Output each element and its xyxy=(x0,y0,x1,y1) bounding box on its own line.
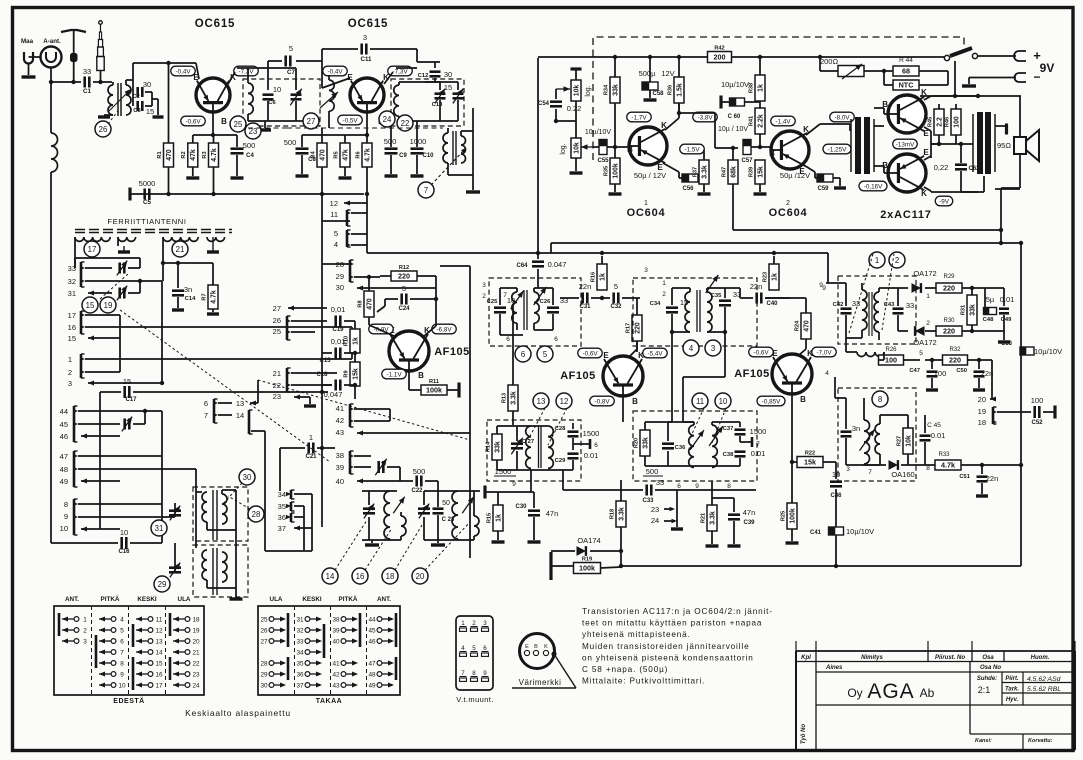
svg-text:50µ /12V: 50µ /12V xyxy=(780,171,810,180)
resistor R4 470 xyxy=(321,128,323,143)
svg-text:34: 34 xyxy=(296,649,304,656)
svg-text:2: 2 xyxy=(786,200,790,207)
svg-text:-6,8V: -6,8V xyxy=(436,326,452,333)
svg-text:7: 7 xyxy=(868,469,872,476)
svg-text:28: 28 xyxy=(260,660,268,667)
bottom row xyxy=(970,733,1075,735)
resistor R9 15k xyxy=(350,362,360,386)
wire vertical 162 xyxy=(161,281,163,383)
coil AM det 2 xyxy=(875,424,880,454)
capacitor C41 10u/10V xyxy=(829,527,844,535)
ferrite coil 3 xyxy=(163,237,198,241)
capacitor C19 0.01 xyxy=(334,316,337,327)
resistor R11 100k xyxy=(409,389,421,391)
wire xyxy=(321,49,323,88)
resistor R6 4.7k xyxy=(366,135,368,143)
coil IF3b xyxy=(548,426,553,468)
core T5 xyxy=(538,426,540,468)
svg-text:0.01: 0.01 xyxy=(1000,295,1015,304)
svg-text:45: 45 xyxy=(60,420,68,429)
svg-text:10k: 10k xyxy=(905,435,912,447)
svg-text:2.2k: 2.2k xyxy=(757,114,764,128)
wire xyxy=(51,81,81,83)
svg-text:4: 4 xyxy=(334,240,338,249)
svg-text:B: B xyxy=(221,117,227,126)
svg-text:22: 22 xyxy=(192,660,200,667)
svg-text:20: 20 xyxy=(192,638,200,645)
svg-text:5.5.62 RBL: 5.5.62 RBL xyxy=(1027,686,1061,693)
circled 1 xyxy=(869,252,885,268)
svg-text:Kansi:: Kansi: xyxy=(975,738,992,744)
trimmer cap pin33 xyxy=(118,263,121,274)
svg-text:R7: R7 xyxy=(201,293,207,300)
svg-text:R45: R45 xyxy=(927,117,933,127)
resistor R45 2.2 xyxy=(934,109,944,135)
svg-text:Kpl: Kpl xyxy=(801,655,811,661)
svg-text:6: 6 xyxy=(506,336,510,343)
svg-text:25: 25 xyxy=(260,616,268,623)
voltage -13mV xyxy=(893,139,918,149)
svg-text:6: 6 xyxy=(594,442,598,449)
speaker return top xyxy=(1019,96,1021,137)
svg-text:27: 27 xyxy=(273,304,281,313)
capacitor C34 15 xyxy=(666,306,678,309)
svg-text:22n: 22n xyxy=(579,282,592,291)
voltage -0.8V xyxy=(590,396,615,406)
svg-text:ANT.: ANT. xyxy=(65,596,79,603)
svg-text:10k: 10k xyxy=(573,142,580,154)
capacitor C8 500 xyxy=(301,135,303,147)
svg-text:10: 10 xyxy=(719,397,728,406)
wire K xyxy=(424,326,436,336)
svg-text:C59: C59 xyxy=(817,186,829,192)
voltage -5.4V xyxy=(643,348,668,358)
wire C34 down to T6 xyxy=(671,332,673,422)
svg-text:K: K xyxy=(544,644,548,650)
svg-text:4.7k: 4.7k xyxy=(210,290,217,304)
svg-text:19: 19 xyxy=(978,407,986,416)
svg-text:500: 500 xyxy=(243,141,256,150)
wire C35 down via y377 xyxy=(724,332,726,377)
coil IF1a xyxy=(512,292,517,323)
svg-text:C55: C55 xyxy=(597,158,609,164)
svg-text:Hyv.: Hyv. xyxy=(1006,697,1019,703)
svg-text:5µ: 5µ xyxy=(986,295,995,304)
svg-text:3.3k: 3.3k xyxy=(618,507,625,521)
svg-text:4: 4 xyxy=(461,645,465,652)
battery plus terminal xyxy=(978,55,1016,57)
voltage -7.3V xyxy=(234,66,259,76)
svg-text:OA160: OA160 xyxy=(891,470,914,479)
svg-text:19: 19 xyxy=(192,627,200,634)
wire pins3437 verticals xyxy=(303,506,305,550)
svg-text:C29: C29 xyxy=(555,458,566,464)
svg-text:2: 2 xyxy=(895,256,899,265)
resistor R31 33k xyxy=(967,295,977,325)
svg-text:33k: 33k xyxy=(969,304,976,316)
svg-text:500: 500 xyxy=(413,467,426,476)
tuned circuit 1 ground xyxy=(264,121,266,128)
resistor R25 100k xyxy=(787,503,797,529)
coil IF4b xyxy=(712,425,717,467)
voltage -8.0V xyxy=(830,112,855,122)
svg-text:26: 26 xyxy=(99,125,108,134)
svg-text:18: 18 xyxy=(978,418,986,427)
capacitor C50 22n xyxy=(974,370,985,373)
capacitor C7 5 xyxy=(296,60,322,62)
svg-text:3.3k: 3.3k xyxy=(709,511,716,525)
capacitor C21 1 xyxy=(307,443,310,454)
svg-text:33: 33 xyxy=(656,478,664,487)
svg-text:C34: C34 xyxy=(650,301,661,307)
capacitor C55 10u/10V xyxy=(599,140,607,155)
wire collector V7 xyxy=(806,124,820,135)
gang dashed line xyxy=(287,127,443,129)
resistor R8 470 xyxy=(364,291,374,317)
svg-text:46: 46 xyxy=(368,638,376,645)
svg-text:R34: R34 xyxy=(603,84,609,95)
svg-text:C14: C14 xyxy=(185,296,196,302)
svg-text:OA172: OA172 xyxy=(913,269,936,278)
ground xyxy=(98,115,110,118)
svg-text:C48: C48 xyxy=(983,317,994,323)
svg-text:OC604: OC604 xyxy=(627,207,666,219)
resistor R23 1k xyxy=(769,264,779,290)
resistor R10 1k xyxy=(350,329,360,353)
capacitor C39 47n xyxy=(728,513,740,516)
svg-text:C30: C30 xyxy=(515,504,527,510)
svg-text:3: 3 xyxy=(846,466,850,473)
svg-text:3: 3 xyxy=(711,344,715,353)
svg-text:37: 37 xyxy=(296,682,304,689)
svg-text:220: 220 xyxy=(634,322,641,334)
coil IF2b xyxy=(707,292,712,332)
voltage -0.6V xyxy=(181,116,206,126)
svg-text:7: 7 xyxy=(503,292,507,299)
svg-text:38: 38 xyxy=(332,616,340,623)
svg-text:3: 3 xyxy=(483,620,487,627)
voltage -0.9V xyxy=(369,324,394,334)
svg-text:FERRIITTIANTENNI: FERRIITTIANTENNI xyxy=(107,217,186,226)
svg-text:Muiden transistoreiden jänn: Muiden transistoreiden jännitearvoille xyxy=(582,642,749,651)
resistor R17 220 xyxy=(632,315,642,341)
svg-text:27: 27 xyxy=(260,638,268,645)
voltage -0.4V xyxy=(171,66,196,76)
resistor R15 1k xyxy=(493,505,503,531)
resistor R38 1k xyxy=(755,75,765,101)
trimmer 31 xyxy=(174,503,176,517)
circled 12 xyxy=(556,393,572,409)
svg-text:-1,4V: -1,4V xyxy=(775,118,791,125)
svg-text:NTC: NTC xyxy=(899,81,914,90)
svg-text:20: 20 xyxy=(978,395,986,404)
transistor V2 OC615 xyxy=(350,78,384,112)
svg-text:7: 7 xyxy=(120,649,124,656)
svg-text:22n: 22n xyxy=(986,474,999,483)
capacitor C23 50 xyxy=(433,507,444,510)
svg-text:5: 5 xyxy=(289,44,293,53)
svg-text:E: E xyxy=(923,148,929,157)
circled 29 xyxy=(154,576,170,592)
svg-text:14: 14 xyxy=(326,572,335,581)
svg-text:46: 46 xyxy=(60,432,68,441)
capacitor C64 0.047 xyxy=(532,260,544,263)
svg-text:34: 34 xyxy=(278,490,286,499)
svg-text:Suhde:: Suhde: xyxy=(977,676,997,682)
svg-text:220: 220 xyxy=(398,272,410,281)
wire xyxy=(351,327,353,359)
svg-text:26: 26 xyxy=(273,316,281,325)
svg-text:-0,6V: -0,6V xyxy=(582,350,598,357)
svg-text:R 44: R 44 xyxy=(899,57,913,64)
svg-text:C35: C35 xyxy=(711,293,722,299)
svg-text:B: B xyxy=(418,371,424,380)
svg-text:on yhteisenä pisteenä kond: on yhteisenä pisteenä kondensaattorin xyxy=(582,653,754,662)
circled 27 xyxy=(303,113,319,129)
capacitor C1 33 xyxy=(83,77,86,88)
wire emitters join xyxy=(924,127,931,131)
svg-text:50: 50 xyxy=(442,500,450,507)
svg-text:2: 2 xyxy=(68,368,72,377)
capacitor C54 0.22 xyxy=(555,89,557,99)
IF transformer 1 dashed xyxy=(489,278,581,346)
varimerkki pointer xyxy=(551,651,556,656)
transistor V3 AF105 xyxy=(389,331,429,371)
svg-text:AF105: AF105 xyxy=(434,346,470,358)
circled 25 xyxy=(230,116,246,132)
NTC xyxy=(893,80,919,90)
voltage -7.0V xyxy=(812,347,837,357)
svg-text:R38: R38 xyxy=(748,83,754,93)
svg-text:-1,1V: -1,1V xyxy=(386,371,402,378)
svg-text:12: 12 xyxy=(560,397,569,406)
svg-text:15k: 15k xyxy=(352,368,359,380)
svg-text:12: 12 xyxy=(155,627,163,634)
svg-text:OC615: OC615 xyxy=(195,18,235,30)
svg-text:100k: 100k xyxy=(579,564,595,573)
trimmer xyxy=(268,67,296,69)
svg-text:15: 15 xyxy=(444,83,452,92)
svg-text:R46: R46 xyxy=(944,117,950,127)
svg-text:470: 470 xyxy=(319,149,326,161)
svg-text:R17: R17 xyxy=(625,323,631,333)
svg-text:3n: 3n xyxy=(852,424,860,433)
svg-text:22: 22 xyxy=(401,119,410,128)
transistor V1 OC615 xyxy=(196,78,230,112)
svg-text:44: 44 xyxy=(60,407,68,416)
capacitor C15 0.01 xyxy=(334,348,337,359)
svg-text:100k: 100k xyxy=(426,386,442,395)
feedback wire y243 xyxy=(551,242,1021,244)
osc circuit 1 trimmer xyxy=(362,490,397,492)
svg-text:29: 29 xyxy=(336,272,344,281)
transistor V8 AC117 upper xyxy=(888,95,926,133)
battery minus terminal xyxy=(1015,73,1027,82)
transistor V6 OC604 xyxy=(629,127,667,165)
svg-text:30: 30 xyxy=(260,682,268,689)
svg-text:6: 6 xyxy=(554,336,558,343)
svg-text:31: 31 xyxy=(155,524,164,533)
svg-text:1: 1 xyxy=(83,616,87,623)
wire base V4 xyxy=(622,396,624,422)
osc circuit 2 trimmer xyxy=(424,490,480,492)
svg-text:4.7k: 4.7k xyxy=(941,461,955,470)
resistor R1 470 xyxy=(168,63,170,143)
coil IF2a xyxy=(685,292,690,332)
svg-text:2:1: 2:1 xyxy=(978,685,991,695)
svg-text:KESKI: KESKI xyxy=(137,596,156,603)
svg-text:50µ / 12V: 50µ / 12V xyxy=(634,171,666,180)
resistor R18 3.3k xyxy=(616,501,626,527)
svg-text:22: 22 xyxy=(273,381,281,390)
wire right node xyxy=(947,71,949,85)
coil IF3a xyxy=(526,426,531,468)
coil IF4a xyxy=(689,425,694,467)
svg-text:C 45: C 45 xyxy=(927,422,941,429)
svg-text:0.22: 0.22 xyxy=(567,104,582,113)
circled 7 xyxy=(418,182,434,198)
svg-text:-0,85V: -0,85V xyxy=(762,398,781,405)
ground xyxy=(304,404,316,407)
svg-text:1: 1 xyxy=(875,256,879,265)
resistor R41 2.2k xyxy=(755,108,765,134)
capacitor C38 0.01 xyxy=(735,450,746,453)
table TAKAA xyxy=(258,606,400,695)
oscillator feedback coil xyxy=(329,80,334,111)
capacitor C24 5 xyxy=(400,294,403,305)
capacitor C36 xyxy=(662,442,674,445)
ground xyxy=(230,597,243,600)
svg-text:AGA: AGA xyxy=(867,680,914,703)
svg-text:29: 29 xyxy=(260,671,268,678)
svg-text:0.047: 0.047 xyxy=(548,260,567,269)
capacitor C2 30 xyxy=(132,80,134,92)
svg-text:2: 2 xyxy=(83,627,87,634)
svg-text:yhteisenä mittapisteenä.: yhteisenä mittapisteenä. xyxy=(582,630,691,639)
capacitor C44 3n xyxy=(841,430,852,433)
svg-text:32: 32 xyxy=(68,277,76,286)
svg-text:47: 47 xyxy=(368,660,376,667)
svg-text:R3: R3 xyxy=(202,151,208,158)
wire 4 in xyxy=(834,377,836,398)
svg-text:39: 39 xyxy=(332,627,340,634)
transformer T3 xyxy=(443,133,448,163)
svg-text:95Ω: 95Ω xyxy=(997,141,1011,150)
svg-text:R20: R20 xyxy=(633,438,639,448)
svg-text:0.01: 0.01 xyxy=(931,431,946,440)
battery switch xyxy=(944,55,949,60)
svg-text:47: 47 xyxy=(60,452,68,461)
svg-text:17: 17 xyxy=(88,245,97,254)
svg-text:10: 10 xyxy=(60,524,68,533)
capacitor C51 22n xyxy=(977,475,988,478)
wire 9 in xyxy=(826,282,846,284)
svg-text:1k: 1k xyxy=(599,273,606,281)
svg-text:R29: R29 xyxy=(943,274,955,280)
svg-text:33: 33 xyxy=(852,299,860,308)
svg-text:R8: R8 xyxy=(357,300,363,307)
core det xyxy=(868,292,870,336)
svg-text:Mittalaite: Putkivolttimittar: Mittalaite: Putkivolttimittari. xyxy=(582,677,705,686)
connector Vt.muunt xyxy=(456,616,493,690)
capacitor C3 15 trimmer xyxy=(132,92,134,106)
voltage -1.1V xyxy=(382,369,407,379)
tuned circuit L2 dashed xyxy=(243,79,320,126)
capacitor C16 10 xyxy=(120,537,123,549)
resistor R5 47k xyxy=(344,135,346,143)
svg-text:-1,25V: -1,25V xyxy=(828,146,847,153)
jack Maa xyxy=(24,52,33,64)
svg-text:C37: C37 xyxy=(723,426,734,432)
svg-text:0.01: 0.01 xyxy=(584,451,599,460)
coil IF1b xyxy=(534,292,539,323)
contacts PITKA 4-10 xyxy=(99,617,105,622)
svg-text:470: 470 xyxy=(803,320,810,332)
svg-text:9V: 9V xyxy=(1040,61,1055,75)
wire bases xyxy=(874,107,884,109)
svg-text:Oy: Oy xyxy=(847,686,862,700)
circled 21 xyxy=(172,241,188,257)
svg-text:68: 68 xyxy=(902,67,910,76)
svg-text:3: 3 xyxy=(644,267,648,274)
svg-text:-0,8V: -0,8V xyxy=(594,398,610,405)
svg-text:PITKÄ: PITKÄ xyxy=(339,595,358,603)
voltage -9V xyxy=(935,196,953,206)
svg-text:9: 9 xyxy=(64,512,68,521)
svg-text:3.3k: 3.3k xyxy=(701,165,708,179)
svg-text:6: 6 xyxy=(120,638,124,645)
circled 10 xyxy=(715,393,731,409)
svg-text:C58: C58 xyxy=(652,91,664,97)
resistor R19 100k xyxy=(549,552,552,580)
svg-text:15: 15 xyxy=(68,334,76,343)
svg-text:Työ No: Työ No xyxy=(801,724,807,744)
capacitor C43 33 xyxy=(893,307,904,310)
osc circuit 2 coil xyxy=(452,491,458,539)
svg-text:R22: R22 xyxy=(805,451,815,457)
svg-text:-9V: -9V xyxy=(939,198,950,205)
capacitor C52 100 xyxy=(1033,406,1036,418)
ratio detector transformer dashed xyxy=(838,276,916,344)
svg-text:10k: 10k xyxy=(573,85,580,97)
svg-text:22n: 22n xyxy=(750,282,763,291)
svg-text:33k: 33k xyxy=(612,84,619,96)
svg-text:C28: C28 xyxy=(555,426,566,432)
svg-text:31: 31 xyxy=(296,616,304,623)
svg-text:R32: R32 xyxy=(949,347,961,353)
svg-text:49: 49 xyxy=(368,682,376,689)
wire output bottom xyxy=(961,191,984,193)
T antenna xyxy=(61,30,86,32)
svg-text:C19: C19 xyxy=(332,327,344,333)
speaker return bottom xyxy=(1019,154,1021,188)
resistor R20 33k xyxy=(640,430,650,456)
svg-text:R35: R35 xyxy=(603,166,609,176)
svg-text:R41: R41 xyxy=(748,116,754,126)
svg-text:ANT.: ANT. xyxy=(377,596,391,603)
svg-text:500: 500 xyxy=(646,467,659,476)
capacitor C46 10 xyxy=(830,480,842,483)
resistor R7 4.7k xyxy=(212,263,214,285)
wire emitter rail xyxy=(133,62,196,64)
svg-text:teet on mitattu käyttäen p: teet on mitattu käyttäen pariston +napaa xyxy=(582,619,762,628)
svg-text:Osa: Osa xyxy=(982,655,994,661)
svg-text:Piirust. No: Piirust. No xyxy=(935,655,965,661)
svg-text:Värimerkki: Värimerkki xyxy=(519,678,562,687)
svg-text:-1,7V: -1,7V xyxy=(631,114,647,121)
wire xyxy=(152,98,158,100)
svg-text:44: 44 xyxy=(368,616,376,623)
